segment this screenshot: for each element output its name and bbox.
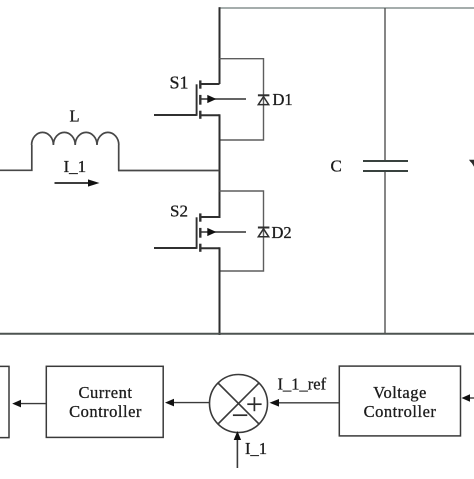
svg-text:D2: D2 bbox=[272, 223, 292, 242]
svg-text:L: L bbox=[70, 107, 80, 126]
arrow input to voltage controller bbox=[462, 394, 474, 402]
capacitor C bbox=[363, 161, 408, 171]
plus sign bbox=[247, 397, 261, 411]
wire bottom rail bbox=[0, 333, 474, 335]
arrow voltage controller to summing junction bbox=[270, 399, 340, 407]
capacitor C branch wire lower bbox=[384, 172, 386, 334]
transistor S2 bbox=[154, 213, 246, 251]
wire bus middle (S1 source to S2 drain) bbox=[219, 114, 221, 218]
wire bus upper (top rail to S1 drain) bbox=[219, 7, 221, 84]
svg-text:D1: D1 bbox=[273, 90, 293, 109]
arrow I_1 feedback into summing junction bbox=[234, 431, 241, 468]
wire D1 branch bbox=[220, 59, 264, 140]
svg-text:Voltage: Voltage bbox=[373, 383, 427, 402]
diode D2 bbox=[258, 228, 270, 237]
svg-text:I_1: I_1 bbox=[64, 157, 87, 176]
svg-text:S1: S1 bbox=[170, 73, 189, 93]
arrow current controller to PWM bbox=[12, 400, 46, 408]
wire D2 branch bbox=[220, 191, 264, 271]
svg-text:Current: Current bbox=[79, 383, 133, 402]
svg-text:I_1_ref: I_1_ref bbox=[278, 375, 327, 394]
wire top rail bbox=[220, 7, 474, 9]
svg-text:I_1: I_1 bbox=[245, 439, 267, 458]
svg-text:Controller: Controller bbox=[69, 402, 142, 421]
capacitor C branch wire upper bbox=[384, 8, 386, 160]
transistor S1 bbox=[154, 80, 246, 118]
minus sign bbox=[233, 414, 247, 416]
block PWM (clipped at left) bbox=[0, 366, 9, 437]
summing junction bbox=[210, 375, 268, 433]
block Current Controller bbox=[46, 366, 163, 437]
svg-text:C: C bbox=[331, 157, 342, 176]
diode D1 bbox=[258, 95, 270, 104]
arrow I_1 direction bbox=[55, 179, 100, 186]
block Voltage Controller bbox=[339, 366, 460, 436]
label V (output voltage, clipped) bbox=[469, 160, 474, 167]
wire inductor to bus node bbox=[118, 170, 220, 172]
svg-text:Controller: Controller bbox=[364, 402, 437, 421]
svg-text:S2: S2 bbox=[170, 202, 188, 221]
inductor L bbox=[0, 132, 119, 170]
wire bus lower (S2 source to bottom rail) bbox=[219, 247, 221, 335]
arrow summing junction to current controller bbox=[165, 399, 210, 407]
